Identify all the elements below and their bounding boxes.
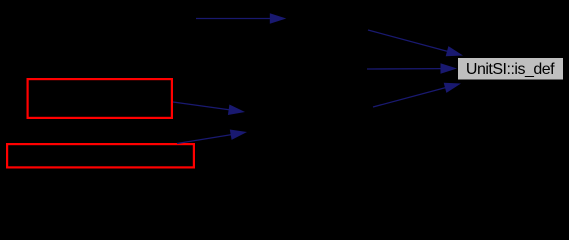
edge: middle node to UnitSI::is_def [367, 63, 457, 74]
edge: upper-middle node to UnitSI::is_def [368, 30, 463, 56]
svg-text:UnitSI::is_def: UnitSI::is_def [466, 61, 555, 78]
node: red box 1 (hidden label) [28, 79, 172, 118]
node: red box 2 (hidden label) [7, 144, 194, 167]
edge: red box 1 to middle node [173, 102, 245, 115]
edge: lower-middle node to UnitSI::is_def [373, 83, 461, 107]
edge: red box 2 to middle node [177, 130, 247, 144]
node: UnitSI::is_def (current node, grey filled) [458, 58, 564, 81]
edge: top arrow [196, 13, 286, 24]
